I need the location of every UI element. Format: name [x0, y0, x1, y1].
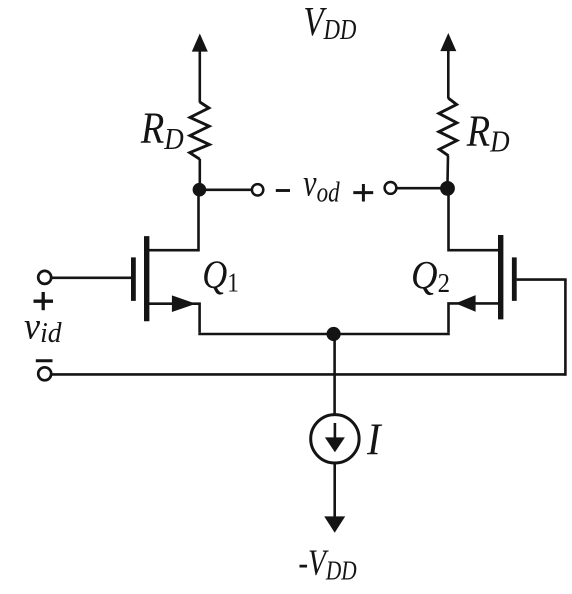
wire right vertical to Q2 gate	[564, 280, 567, 376]
svg-text:VDD: VDD	[303, 0, 356, 46]
wire Q1 gate to input terminal	[52, 276, 132, 279]
transistor Q1	[133, 190, 199, 333]
label plus sign of vod	[353, 184, 373, 202]
wire common node to current source	[333, 334, 336, 415]
arrowhead right supply	[440, 33, 456, 51]
wire resistor left to drain node	[199, 159, 202, 190]
Q1 source lead	[148, 304, 200, 333]
label Q2	[411, 254, 450, 298]
wire resistor right to drain node	[446, 156, 449, 189]
svg-text:vod: vod	[303, 162, 340, 208]
svg-text:RD: RD	[466, 106, 510, 159]
wire bottom input line	[52, 373, 566, 376]
wire Q2 source corner to common node	[333, 333, 450, 336]
label minus sign of vod	[276, 189, 290, 192]
wire Q1 source corner to common node	[198, 333, 334, 336]
wire left drain rail to VDD	[199, 49, 202, 103]
terminal vod minus	[252, 184, 263, 195]
arrowhead left supply	[192, 34, 208, 52]
Q2 channel bar	[498, 235, 503, 319]
terminal input plus	[38, 271, 51, 284]
svg-text:Q2: Q2	[411, 254, 450, 298]
resistor RD left	[190, 102, 210, 159]
svg-text:Q1: Q1	[202, 254, 239, 298]
label plus sign of input	[34, 292, 54, 310]
node drain Q2	[440, 181, 455, 196]
wire current source to negative supply	[333, 463, 336, 518]
transistor Q2	[449, 188, 515, 332]
wire Q2 gate horizontal	[517, 278, 567, 281]
svg-text:RD: RD	[140, 103, 184, 156]
Q2 source lead	[449, 303, 500, 332]
Q1 channel bar	[144, 236, 149, 321]
wire right drain rail to VDD	[447, 49, 450, 99]
Q1 source arrow	[172, 295, 196, 312]
terminal vod plus	[385, 182, 397, 194]
svg-text:-VDD: -VDD	[298, 543, 357, 586]
Q2 source arrow	[456, 295, 476, 312]
wire output terminal to drain2	[396, 187, 447, 190]
node common source	[327, 327, 341, 341]
Q2 drain lead	[449, 188, 500, 250]
Q1 gate bar	[131, 257, 136, 301]
svg-text:I: I	[366, 416, 382, 465]
label Q1	[202, 254, 239, 298]
resistor RD right	[439, 98, 457, 156]
wire drain1 to output terminal	[199, 189, 252, 192]
label minus sign of input	[36, 359, 53, 362]
terminal input minus	[38, 367, 51, 380]
node drain Q1	[193, 183, 207, 197]
Q2 gate bar	[512, 257, 517, 301]
current source I	[311, 415, 359, 463]
arrowhead to negative supply	[324, 516, 345, 532]
svg-text:vid: vid	[24, 306, 62, 349]
Q1 drain lead	[148, 190, 199, 251]
